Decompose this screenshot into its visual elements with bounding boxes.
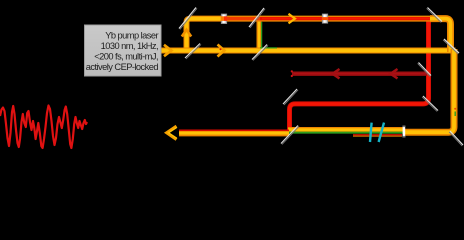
- svg-text:<200 fs, multi-mJ,: <200 fs, multi-mJ,: [94, 52, 158, 62]
- mirror M7 (H3 left elbow): [283, 89, 297, 104]
- orange understripe on bottom beam: [353, 135, 402, 137]
- svg-text:1030 nm, 1kHz,: 1030 nm, 1kHz,: [101, 41, 158, 51]
- beam A (pump line from box, second row): [161, 48, 456, 54]
- yellow right-hand loop V5 (top bar, right vertical, bottom run): [430, 19, 451, 52]
- mirror M5 (H2 pickoff): [419, 63, 432, 76]
- mirror M8 (bottom combiner): [281, 126, 298, 144]
- mirror M2 (dichroic on top beam): [249, 8, 264, 27]
- green edge on V2: [261, 22, 263, 48]
- mirror M1 (top left): [179, 8, 196, 29]
- crystal C2: [322, 14, 327, 23]
- beamsplitter BS2: [252, 45, 267, 60]
- wedge W1 (cyan): [370, 123, 372, 142]
- red vertical V3 (red beam down from top dichroic) + H3 + V4 path: [290, 19, 429, 131]
- beam A arrow 1: [164, 45, 172, 56]
- H2 mid arrow 2: [391, 69, 398, 78]
- bottom beam mid section (tick to red junction): [288, 127, 404, 129]
- output arrowhead: [167, 126, 177, 139]
- mirror M9 (bottom right corner): [450, 131, 463, 145]
- vertical stub V2 (yellow link between the two top beams): [257, 20, 262, 50]
- wedge W2 (cyan): [379, 123, 384, 142]
- output beam (bottom left section): [179, 130, 289, 137]
- H2 left arrow tip: [291, 70, 293, 72]
- mirror M4 (beam A to V5): [444, 39, 459, 53]
- red understripe on bottom beam: [353, 134, 402, 136]
- red stripe on output beam: [179, 129, 289, 131]
- green stripe on bottom beam: [289, 132, 403, 134]
- beam B red section (after crystal C1): [226, 17, 262, 20]
- H2 mid arrow 1: [333, 69, 340, 78]
- dark red return line H2: [292, 71, 427, 75]
- red beam bright core: [290, 19, 429, 131]
- beamsplitter BS1: [185, 44, 200, 59]
- green fringe on beam A after BS2: [260, 47, 277, 49]
- pump laser box: [85, 25, 162, 76]
- up arrow on V1: [182, 30, 191, 37]
- crystal C1: [221, 14, 226, 24]
- green mark on V5: [454, 112, 456, 117]
- beam A arrow 2: [218, 45, 225, 57]
- svg-text:actively CEP-locked: actively CEP-locked: [86, 62, 159, 72]
- mirror M6 (H3 right elbow): [423, 96, 438, 111]
- beam B with V1 riser (pump line to first crystal, top row): [187, 19, 434, 53]
- beam B arrow: [289, 14, 296, 24]
- svg-text:Yb pump laser: Yb pump laser: [105, 31, 158, 41]
- waveform (CEP-unstable field trace, bottom left): [0, 106, 87, 149]
- mirror M3 (top right dichroic): [428, 8, 443, 22]
- right vertical lower section: [404, 49, 454, 132]
- thin plate tick on bottom beam: [403, 126, 406, 138]
